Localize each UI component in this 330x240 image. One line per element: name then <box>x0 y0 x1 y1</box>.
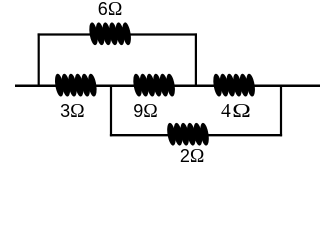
resistor R 4ohm coil <box>212 73 256 96</box>
wire: bottom branch right vertical <box>280 85 282 136</box>
wire: top branch horizontal <box>38 33 197 35</box>
resistor R 3ohm coil <box>54 73 98 96</box>
circuit schematic: series-parallel resistor network <box>0 0 330 175</box>
svg-text:Ω: Ω <box>232 100 251 122</box>
wire: top branch left vertical <box>38 33 40 86</box>
wire: bottom branch left vertical <box>110 85 112 136</box>
svg-text:9Ω: 9Ω <box>133 101 158 122</box>
resistor R-bottom 2ohm coil <box>166 123 210 146</box>
svg-text:6Ω: 6Ω <box>98 0 123 20</box>
wire: main horizontal line <box>15 85 320 88</box>
wire: bottom branch horizontal <box>110 134 282 136</box>
svg-text:2Ω: 2Ω <box>180 146 205 167</box>
resistor R-top 6ohm coil <box>88 22 132 45</box>
resistor R 9ohm coil <box>132 73 176 96</box>
svg-text:4: 4 <box>221 101 231 122</box>
wire: top branch right vertical <box>195 33 197 86</box>
svg-text:3Ω: 3Ω <box>60 101 85 122</box>
